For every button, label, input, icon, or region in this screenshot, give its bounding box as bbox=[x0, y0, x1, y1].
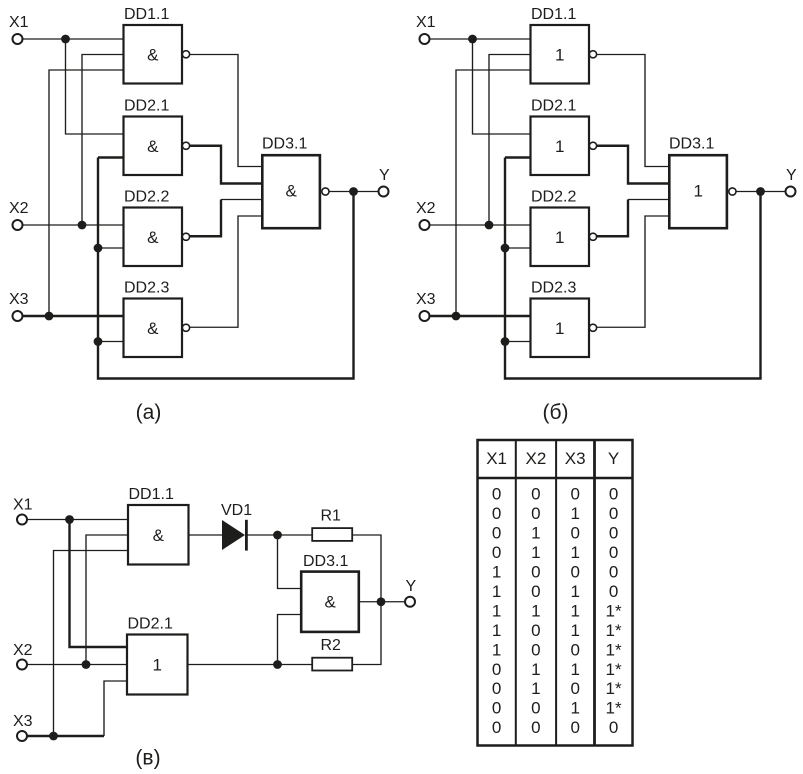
output inversion bubble of DD1.1 (а) bbox=[182, 51, 189, 58]
diode VD1 (в) bbox=[221, 502, 252, 551]
truth table data row 9 bbox=[492, 640, 622, 659]
svg-text:&: & bbox=[147, 228, 159, 247]
svg-text:0: 0 bbox=[492, 504, 501, 523]
svg-text:1: 1 bbox=[531, 601, 540, 620]
junction node Y (а) bbox=[349, 187, 358, 196]
svg-text:1*: 1* bbox=[606, 640, 622, 659]
svg-text:DD3.1: DD3.1 bbox=[669, 136, 714, 153]
svg-text:1: 1 bbox=[555, 228, 564, 247]
svg-text:1*: 1* bbox=[606, 621, 622, 640]
svg-text:0: 0 bbox=[570, 524, 579, 543]
svg-text:0: 0 bbox=[609, 718, 618, 737]
svg-text:1: 1 bbox=[492, 621, 501, 640]
truth table column separator X3/Y bbox=[593, 440, 596, 746]
truth table frame bbox=[478, 440, 633, 746]
wire X2 junction to DD1.1 input 2 (б) bbox=[489, 55, 531, 226]
svg-text:0: 0 bbox=[492, 660, 501, 679]
svg-text:R2: R2 bbox=[321, 637, 342, 654]
svg-text:Y: Y bbox=[608, 449, 619, 468]
svg-text:1: 1 bbox=[492, 640, 501, 659]
wire X3 to DD2.3 input 1 (а) bbox=[22, 315, 123, 317]
wire X1 to DD1.1 input 1 (в) bbox=[27, 519, 128, 521]
svg-text:DD3.1: DD3.1 bbox=[303, 553, 348, 570]
svg-text:1: 1 bbox=[570, 582, 579, 601]
wire X3 junction to DD1.1 input 3 (б) bbox=[456, 70, 531, 316]
svg-text:0: 0 bbox=[570, 485, 579, 504]
junction node X3 (а) bbox=[45, 312, 54, 321]
svg-text:0: 0 bbox=[492, 699, 501, 718]
svg-text:DD2.1: DD2.1 bbox=[124, 98, 169, 115]
svg-text:1*: 1* bbox=[606, 699, 622, 718]
svg-text:&: & bbox=[325, 593, 337, 612]
svg-text:1: 1 bbox=[492, 582, 501, 601]
wire DD2.1 output to R2 (в) bbox=[188, 664, 312, 666]
wire X1 junction to DD2.1 input 1 (в) bbox=[70, 520, 128, 648]
truth table data row 13 bbox=[492, 718, 618, 737]
svg-text:DD2.3: DD2.3 bbox=[124, 280, 169, 297]
junction node DD2.1 output (в) bbox=[273, 660, 282, 669]
output inversion bubble of DD2.2 (б) bbox=[589, 233, 596, 240]
svg-text:0: 0 bbox=[531, 485, 540, 504]
junction node X3 (б) bbox=[452, 312, 461, 321]
truth table data row 1 bbox=[492, 485, 618, 504]
svg-text:1: 1 bbox=[570, 504, 579, 523]
svg-text:Y: Y bbox=[786, 167, 797, 184]
junction node X1 (в) bbox=[65, 515, 74, 524]
truth table column separator X2/X3 bbox=[555, 440, 557, 746]
truth table data row 8 bbox=[492, 621, 622, 640]
svg-text:X3: X3 bbox=[565, 449, 586, 468]
svg-text:X2: X2 bbox=[9, 200, 29, 217]
wire DD2.1 output to DD3.1 input 2 (б) bbox=[597, 146, 670, 184]
svg-text:1: 1 bbox=[570, 621, 579, 640]
truth table data row 10 bbox=[492, 660, 622, 679]
truth table data row 6 bbox=[492, 582, 618, 601]
svg-text:DD1.1: DD1.1 bbox=[129, 486, 174, 503]
svg-text:0: 0 bbox=[531, 640, 540, 659]
input terminal X3 (б) bbox=[416, 291, 436, 321]
junction node X1 (б) bbox=[468, 35, 477, 44]
wire X2 junction to DD1.1 input 2 (в) bbox=[86, 535, 128, 665]
wire R2 to output node (в) bbox=[353, 602, 382, 665]
truth table data row 3 bbox=[492, 524, 618, 543]
wire Y feedback bus (а) bbox=[98, 158, 354, 379]
wire X2 junction to DD1.1 input 2 (а) bbox=[82, 55, 124, 226]
svg-text:VD1: VD1 bbox=[221, 502, 252, 519]
svg-text:X1: X1 bbox=[13, 497, 33, 514]
svg-text:0: 0 bbox=[609, 563, 618, 582]
wire X2 to DD2.2 input 1 (б) bbox=[429, 224, 530, 226]
logic gate DD1.1 (а) bbox=[124, 6, 183, 84]
svg-text:0: 0 bbox=[609, 524, 618, 543]
wire X1 to DD1.1 input 1 (б) bbox=[429, 38, 530, 40]
svg-text:&: & bbox=[147, 319, 159, 338]
svg-text:1: 1 bbox=[555, 319, 564, 338]
wire feedback to DD2.1 input 2 (а) bbox=[98, 156, 124, 158]
svg-text:1: 1 bbox=[153, 656, 162, 675]
wire X2 to DD2.2 input 1 (а) bbox=[22, 224, 123, 226]
junction node X2 (а) bbox=[78, 221, 87, 230]
svg-text:1: 1 bbox=[570, 543, 579, 562]
svg-text:X2: X2 bbox=[526, 449, 547, 468]
caption (а) bbox=[136, 401, 162, 424]
wire DD2.1 junction to DD3.1 input 2 (в) bbox=[278, 615, 302, 665]
svg-text:DD2.1: DD2.1 bbox=[128, 616, 173, 633]
svg-text:(б): (б) bbox=[542, 401, 568, 424]
wire DD1.1 output to DD3.1 input 1 (б) bbox=[597, 55, 670, 167]
svg-text:&: & bbox=[153, 526, 165, 545]
svg-text:1: 1 bbox=[570, 699, 579, 718]
input terminal X3 (в) bbox=[13, 713, 33, 741]
junction node Y (б) bbox=[756, 187, 765, 196]
svg-text:0: 0 bbox=[609, 543, 618, 562]
wire feedback to DD2.3 input 2 (б) bbox=[505, 341, 531, 343]
svg-text:0: 0 bbox=[492, 718, 501, 737]
junction node Y (в) bbox=[377, 597, 386, 606]
truth table data row 11 bbox=[492, 679, 622, 698]
resistor R1 (в) bbox=[312, 508, 352, 541]
output inversion bubble of DD2.2 (а) bbox=[182, 233, 189, 240]
svg-text:0: 0 bbox=[492, 524, 501, 543]
output inversion bubble of DD3.1 (а) bbox=[322, 188, 329, 195]
wire DD3.1 output to Y (б) bbox=[736, 191, 785, 193]
input terminal X2 (б) bbox=[416, 200, 436, 230]
caption (б) bbox=[542, 401, 568, 424]
logic gate DD2.3 (а) bbox=[124, 280, 183, 358]
input terminal X1 (а) bbox=[9, 14, 29, 44]
wire X1 junction to DD2.1 input 1 (а) bbox=[66, 39, 124, 134]
output inversion bubble of DD3.1 (б) bbox=[729, 188, 736, 195]
svg-text:&: & bbox=[147, 45, 159, 64]
junction node diode output (в) bbox=[273, 531, 282, 540]
input terminal X3 (а) bbox=[9, 291, 29, 321]
input terminal X2 (в) bbox=[13, 642, 33, 670]
truth table data row 12 bbox=[492, 699, 622, 718]
wire R1 to output node (в) bbox=[353, 535, 382, 602]
svg-text:R1: R1 bbox=[321, 508, 342, 525]
svg-text:0: 0 bbox=[570, 640, 579, 659]
svg-text:&: & bbox=[286, 181, 298, 200]
truth table header row bbox=[486, 449, 619, 468]
svg-text:1: 1 bbox=[531, 524, 540, 543]
wire DD1.1 output to DD3.1 input 1 (а) bbox=[190, 55, 263, 167]
wire X3 to DD2.1 input 3 (в) bbox=[27, 681, 127, 736]
svg-text:X1: X1 bbox=[416, 14, 436, 31]
svg-text:DD2.2: DD2.2 bbox=[124, 189, 169, 206]
svg-text:0: 0 bbox=[531, 699, 540, 718]
svg-text:0: 0 bbox=[570, 679, 579, 698]
svg-text:X1: X1 bbox=[9, 14, 29, 31]
truth table header separator bbox=[478, 477, 633, 480]
wire feedback to DD2.3 input 2 (а) bbox=[98, 341, 124, 343]
svg-text:1: 1 bbox=[492, 601, 501, 620]
junction node X1 (а) bbox=[61, 35, 70, 44]
output terminal Y (а) bbox=[379, 167, 391, 197]
wire feedback to DD2.2 input 2 (б) bbox=[505, 247, 531, 249]
svg-text:0: 0 bbox=[492, 543, 501, 562]
wire diode junction to DD3.1 input 1 (в) bbox=[278, 535, 302, 589]
wire DD3.1 output to Y (в) bbox=[359, 601, 405, 603]
svg-text:1*: 1* bbox=[606, 601, 622, 620]
svg-text:0: 0 bbox=[531, 621, 540, 640]
truth table data row 2 bbox=[492, 504, 618, 523]
output inversion bubble of DD2.1 (б) bbox=[589, 142, 596, 149]
svg-text:DD2.3: DD2.3 bbox=[531, 280, 576, 297]
svg-text:1: 1 bbox=[531, 660, 540, 679]
logic gate DD3.1 (в) bbox=[301, 553, 359, 632]
truth table data row 4 bbox=[492, 543, 618, 562]
junction node feedback-DD2.2 (а) bbox=[94, 244, 103, 253]
output inversion bubble of DD2.3 (б) bbox=[589, 324, 596, 331]
wire DD2.3 output to DD3.1 input 4 (б) bbox=[597, 216, 670, 327]
wire X3 to DD2.3 input 1 (б) bbox=[429, 315, 530, 317]
logic gate DD2.2 (б) bbox=[531, 189, 590, 267]
logic gate DD3.1 (а) bbox=[262, 136, 320, 229]
svg-text:(в): (в) bbox=[135, 747, 160, 770]
output inversion bubble of DD2.3 (а) bbox=[182, 324, 189, 331]
svg-text:1: 1 bbox=[531, 679, 540, 698]
svg-text:1: 1 bbox=[531, 543, 540, 562]
svg-text:1: 1 bbox=[492, 563, 501, 582]
svg-text:0: 0 bbox=[609, 582, 618, 601]
wire DD2.2 output to DD3.1 input 3 (б) bbox=[597, 200, 670, 237]
svg-text:DD1.1: DD1.1 bbox=[124, 6, 169, 23]
junction node feedback-DD2.2 (б) bbox=[501, 244, 510, 253]
svg-text:0: 0 bbox=[531, 718, 540, 737]
wire DD3.1 output to Y (а) bbox=[329, 191, 378, 193]
logic gate DD3.1 (б) bbox=[669, 136, 727, 229]
svg-text:1: 1 bbox=[570, 601, 579, 620]
svg-text:DD2.2: DD2.2 bbox=[531, 189, 576, 206]
svg-text:(а): (а) bbox=[136, 401, 162, 424]
logic gate DD2.1 (б) bbox=[531, 98, 590, 176]
svg-text:DD1.1: DD1.1 bbox=[531, 6, 576, 23]
logic gate DD2.1 (в) bbox=[127, 616, 188, 695]
svg-text:0: 0 bbox=[531, 504, 540, 523]
logic gate DD2.3 (б) bbox=[531, 280, 590, 358]
wire DD2.2 output to DD3.1 input 3 (а) bbox=[190, 200, 263, 237]
truth table data row 5 bbox=[492, 563, 618, 582]
svg-text:Y: Y bbox=[406, 578, 417, 595]
logic gate DD1.1 (б) bbox=[531, 6, 590, 84]
logic gate DD2.1 (а) bbox=[124, 98, 183, 176]
junction node feedback-DD2.3 (б) bbox=[501, 337, 510, 346]
junction node X2 (в) bbox=[82, 660, 91, 669]
junction node X3 (в) bbox=[49, 732, 58, 741]
svg-text:1*: 1* bbox=[606, 660, 622, 679]
wire diode to R1 (в) bbox=[246, 534, 311, 536]
svg-text:&: & bbox=[147, 137, 159, 156]
svg-text:0: 0 bbox=[609, 504, 618, 523]
wire X3 junction to DD1.1 input 3 (а) bbox=[49, 70, 124, 316]
wire DD1.1 output to diode VD1 (в) bbox=[189, 534, 223, 536]
svg-text:X3: X3 bbox=[13, 713, 33, 730]
input terminal X2 (а) bbox=[9, 200, 29, 230]
junction node X2 (б) bbox=[485, 221, 494, 230]
svg-text:Y: Y bbox=[379, 167, 390, 184]
junction node feedback-DD2.3 (а) bbox=[94, 337, 103, 346]
wire X1 to DD1.1 input 1 (а) bbox=[22, 38, 123, 40]
svg-text:X1: X1 bbox=[486, 449, 507, 468]
wire feedback to DD2.1 input 2 (б) bbox=[505, 156, 531, 158]
svg-text:1: 1 bbox=[570, 660, 579, 679]
svg-text:0: 0 bbox=[570, 718, 579, 737]
logic gate DD1.1 (в) bbox=[128, 486, 189, 565]
svg-text:1: 1 bbox=[555, 137, 564, 156]
svg-text:1: 1 bbox=[555, 45, 564, 64]
output terminal Y (б) bbox=[786, 167, 798, 197]
truth table column separator X1/X2 bbox=[515, 440, 517, 746]
svg-text:0: 0 bbox=[531, 563, 540, 582]
caption (в) bbox=[135, 747, 160, 770]
wire X1 junction to DD2.1 input 1 (б) bbox=[473, 39, 531, 134]
svg-text:X3: X3 bbox=[416, 291, 436, 308]
svg-text:0: 0 bbox=[570, 563, 579, 582]
output terminal Y (в) bbox=[405, 578, 417, 607]
resistor R2 (в) bbox=[312, 637, 352, 671]
svg-text:0: 0 bbox=[492, 485, 501, 504]
svg-text:0: 0 bbox=[492, 679, 501, 698]
wire DD2.3 output to DD3.1 input 4 (а) bbox=[190, 216, 263, 327]
svg-text:0: 0 bbox=[609, 485, 618, 504]
svg-text:X2: X2 bbox=[416, 200, 436, 217]
svg-text:X3: X3 bbox=[9, 291, 29, 308]
wire Y feedback bus (б) bbox=[505, 158, 761, 379]
svg-text:X2: X2 bbox=[13, 642, 33, 659]
svg-text:1: 1 bbox=[693, 181, 702, 200]
input terminal X1 (б) bbox=[416, 14, 436, 44]
svg-text:0: 0 bbox=[531, 582, 540, 601]
wire X2 to DD2.1 input 2 (в) bbox=[27, 664, 127, 666]
input terminal X1 (в) bbox=[13, 497, 33, 525]
svg-text:1*: 1* bbox=[606, 679, 622, 698]
output inversion bubble of DD2.1 (а) bbox=[182, 142, 189, 149]
svg-text:DD2.1: DD2.1 bbox=[531, 98, 576, 115]
wire DD2.1 output to DD3.1 input 2 (а) bbox=[190, 146, 263, 184]
logic gate DD2.2 (а) bbox=[124, 189, 183, 267]
wire X3 junction to DD1.1 input 3 (в) bbox=[54, 551, 129, 737]
truth table data row 7 bbox=[492, 601, 622, 620]
wire feedback to DD2.2 input 2 (а) bbox=[98, 247, 124, 249]
output inversion bubble of DD1.1 (б) bbox=[589, 51, 596, 58]
svg-text:DD3.1: DD3.1 bbox=[262, 136, 307, 153]
